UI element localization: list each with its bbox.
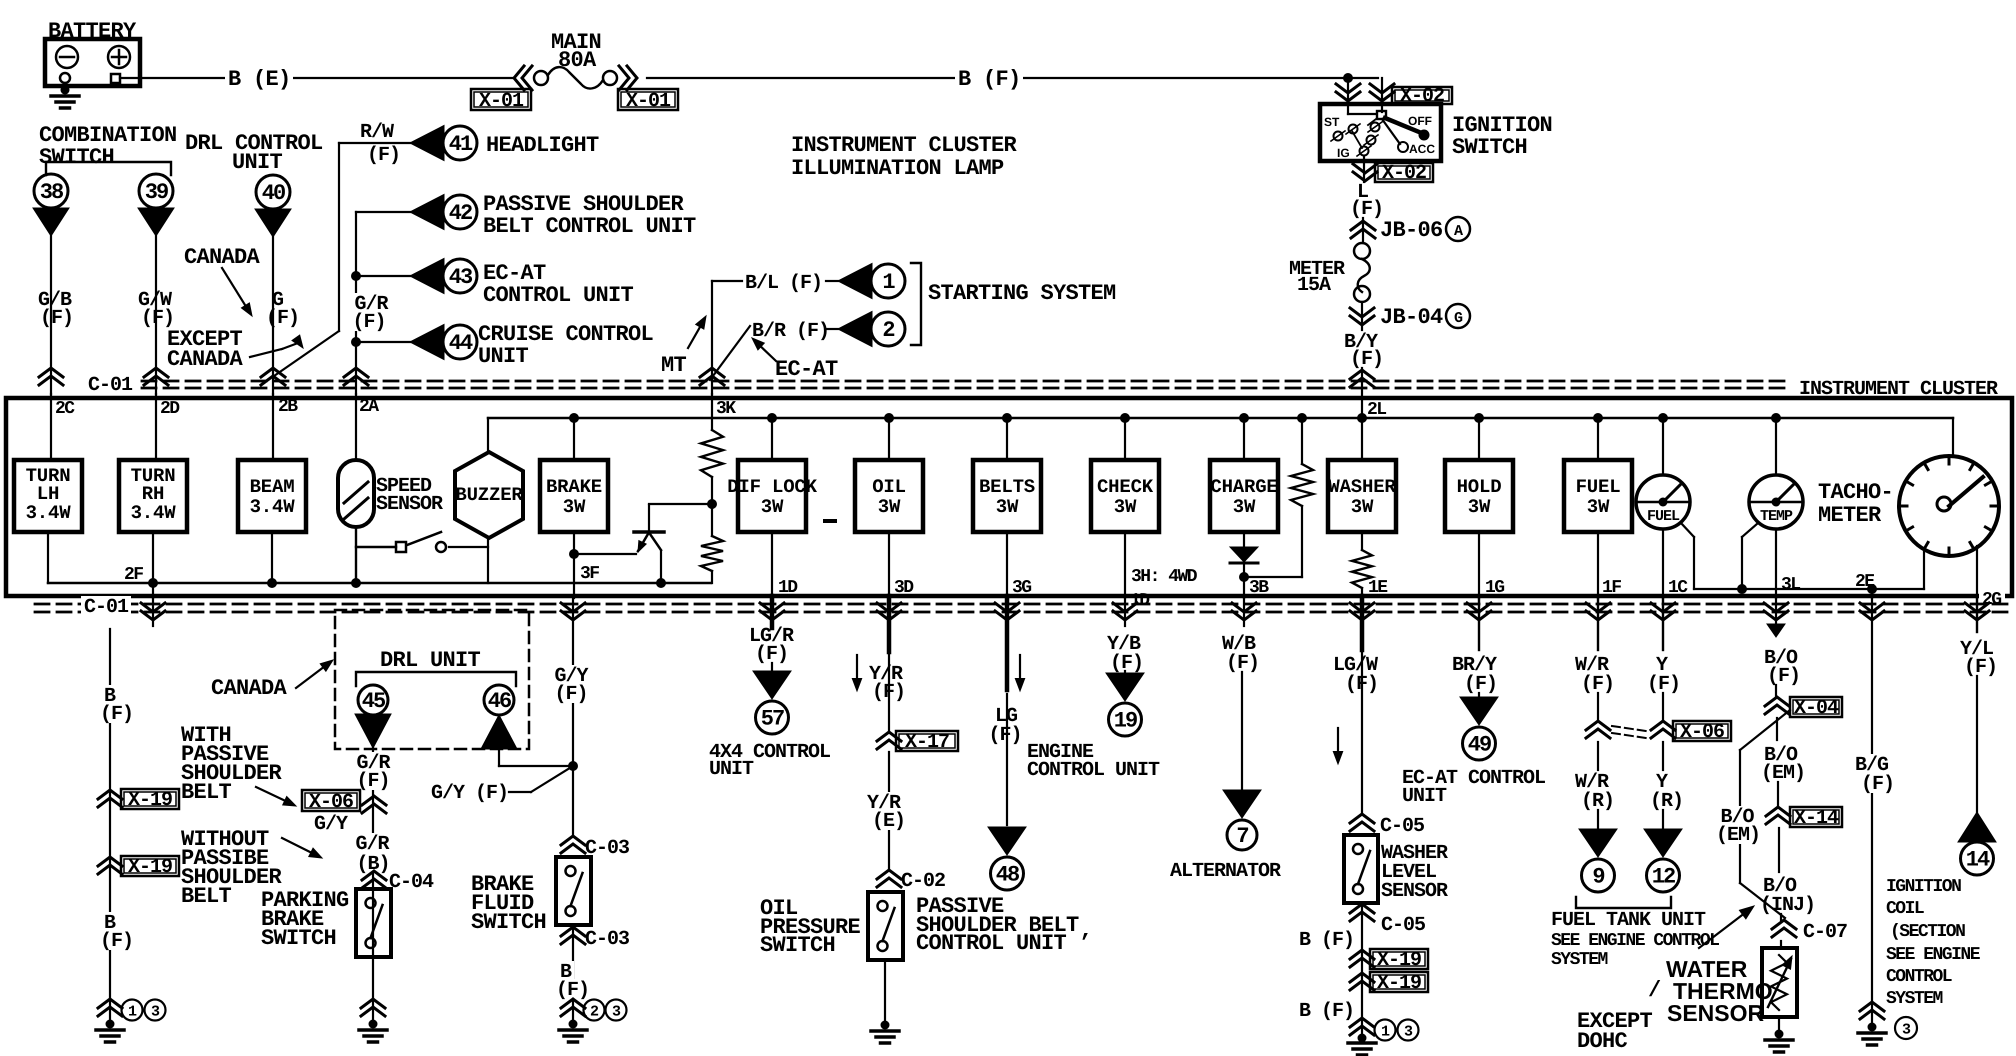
wire pin 2F through ground bus bbox=[152, 532, 154, 598]
svg-text:(F): (F) bbox=[367, 144, 400, 167]
junction G/Y to DRL 46 bbox=[568, 761, 578, 771]
pin 2F chevron bbox=[141, 603, 165, 620]
gauge fuel return wire bbox=[1681, 523, 1694, 537]
svg-text:/: / bbox=[1648, 978, 1661, 1003]
tachometer bbox=[1952, 418, 1954, 457]
resistor washer level bbox=[1361, 532, 1363, 550]
wire LG(F) passive belt unit bbox=[995, 603, 1019, 620]
svg-text:CANADA: CANADA bbox=[167, 347, 244, 372]
svg-text:BRAKE: BRAKE bbox=[546, 476, 602, 498]
junction block JB-04 (G) bbox=[1361, 302, 1363, 330]
diode charge lamp bbox=[1243, 532, 1245, 547]
ground water thermo bbox=[1778, 1017, 1780, 1030]
svg-text:(F): (F) bbox=[988, 724, 1021, 747]
water thermo sensor bbox=[1762, 948, 1797, 1017]
svg-text:B (F): B (F) bbox=[958, 67, 1021, 92]
svg-text:3W: 3W bbox=[1114, 496, 1137, 518]
brake fluid switch bbox=[556, 857, 591, 925]
pointer 14 ignition coil bbox=[1958, 812, 1996, 842]
svg-text:OIL: OIL bbox=[872, 476, 906, 498]
svg-text:(F): (F) bbox=[1861, 773, 1894, 796]
svg-text:ILLUMINATION LAMP: ILLUMINATION LAMP bbox=[791, 156, 1004, 181]
svg-text:1: 1 bbox=[1381, 1024, 1390, 1041]
direction arrow belts bbox=[1019, 655, 1021, 685]
connector X-06 chevron fuel bbox=[1586, 721, 1610, 738]
pointer 57 4x4 control unit bbox=[753, 671, 791, 699]
connector C-07 bbox=[1772, 920, 1796, 937]
speed sensor reed switch bbox=[356, 546, 396, 548]
svg-text:(F): (F) bbox=[1350, 198, 1383, 221]
ground brake fluid bbox=[561, 999, 585, 1016]
svg-text:(F): (F) bbox=[356, 770, 389, 793]
connector 46 DRL input bbox=[484, 685, 514, 715]
ground oil pressure bbox=[884, 960, 886, 1021]
svg-text:ALTERNATOR: ALTERNATOR bbox=[1170, 860, 1281, 883]
svg-text:2B: 2B bbox=[278, 397, 298, 417]
connector X-19 lower bbox=[98, 857, 122, 874]
junction B(F) at ignition bbox=[1343, 73, 1353, 83]
svg-text:COIL: COIL bbox=[1886, 899, 1924, 919]
svg-text:C-01: C-01 bbox=[88, 374, 133, 397]
svg-text:14: 14 bbox=[1966, 848, 1990, 873]
junction block JB-06 (A) bbox=[1351, 221, 1375, 238]
wire B(F) body ground left bbox=[109, 629, 111, 999]
svg-text:ACC: ACC bbox=[1409, 142, 1435, 156]
pointer 9 fuel tank unit bbox=[1579, 829, 1617, 857]
svg-text:X-19: X-19 bbox=[128, 789, 172, 812]
svg-text:X-06: X-06 bbox=[1680, 721, 1724, 744]
wire B(F) fuse to ignition switch bbox=[647, 77, 1378, 79]
connector 39 turn RH feed bbox=[139, 174, 173, 208]
wire LG/R(F) 4x4 control bbox=[760, 603, 784, 620]
ground B/G bbox=[1860, 1002, 1884, 1019]
svg-text:SENSOR: SENSOR bbox=[1667, 1000, 1765, 1026]
connector 45 DRL output bbox=[358, 685, 388, 715]
svg-text:CONTROL UNIT ’: CONTROL UNIT ’ bbox=[916, 931, 1091, 956]
svg-text:FUEL: FUEL bbox=[1576, 476, 1621, 498]
svg-text:OFF: OFF bbox=[1408, 114, 1432, 128]
svg-text:3.4W: 3.4W bbox=[26, 502, 72, 524]
svg-text:X-02: X-02 bbox=[1382, 162, 1426, 185]
cluster ground bus bbox=[48, 582, 711, 585]
svg-text:FUEL: FUEL bbox=[1647, 508, 1680, 525]
wire B/G(F) cluster ground bbox=[1860, 603, 1884, 620]
svg-text:45: 45 bbox=[362, 689, 386, 714]
svg-text:X-06: X-06 bbox=[309, 791, 353, 814]
svg-text:C-05: C-05 bbox=[1381, 914, 1425, 937]
pointer 43 EC-AT control unit bbox=[356, 275, 410, 277]
svg-text:SWITCH: SWITCH bbox=[760, 933, 835, 958]
connector C-04 bbox=[362, 871, 386, 888]
svg-text:(F): (F) bbox=[1110, 652, 1143, 675]
wire except-canada diagonal to pin 2B bbox=[274, 331, 339, 376]
svg-text:CANADA: CANADA bbox=[211, 676, 288, 701]
svg-text:3G: 3G bbox=[1012, 578, 1031, 598]
dash mark bbox=[825, 519, 835, 523]
svg-text:DRL UNIT: DRL UNIT bbox=[380, 648, 481, 673]
svg-text:49: 49 bbox=[1468, 733, 1491, 758]
svg-text:INSTRUMENT CLUSTER: INSTRUMENT CLUSTER bbox=[791, 133, 1018, 158]
svg-text:2D: 2D bbox=[160, 399, 180, 419]
wire B(E) battery to MAIN fuse bbox=[140, 77, 513, 79]
svg-text:IG: IG bbox=[1337, 146, 1350, 160]
ground left B(F) bbox=[98, 999, 122, 1016]
wire W/R fuel tank unit bbox=[1586, 603, 1610, 620]
svg-text:CANADA: CANADA bbox=[184, 245, 261, 270]
washer level sensor bbox=[1344, 835, 1378, 903]
ground battery bbox=[64, 83, 66, 90]
svg-text:JB-04: JB-04 bbox=[1380, 305, 1443, 330]
wire G/Y(F) brake fluid bbox=[572, 598, 574, 835]
direction arrow washer bbox=[1337, 728, 1339, 758]
wire pin 3F bbox=[573, 532, 575, 598]
junction 2E bbox=[1867, 584, 1877, 594]
svg-text:2A: 2A bbox=[359, 397, 379, 417]
svg-text:(F): (F) bbox=[352, 311, 385, 334]
svg-text:(F): (F) bbox=[1350, 348, 1383, 371]
wire LG/W washer level bbox=[1350, 603, 1374, 620]
pointer 42 passive shoulder belt control unit bbox=[356, 211, 410, 213]
connector C-01 upper dashed lines bbox=[142, 380, 1792, 383]
junction G/R to cruise bbox=[351, 337, 361, 347]
svg-text:(SECTION: (SECTION bbox=[1890, 922, 1965, 942]
svg-text:1D: 1D bbox=[1130, 591, 1150, 611]
svg-text:(F): (F) bbox=[40, 307, 73, 330]
ground parking brake bbox=[361, 999, 385, 1016]
svg-text:B/L (F): B/L (F) bbox=[745, 272, 822, 295]
svg-text:(F): (F) bbox=[1964, 656, 1997, 679]
svg-text:SWITCH: SWITCH bbox=[261, 926, 336, 951]
resistor cluster R3 bbox=[1297, 413, 1307, 423]
ground link 1 3 bbox=[122, 1000, 143, 1021]
svg-text:(EM): (EM) bbox=[1716, 824, 1760, 847]
svg-text:BELTS: BELTS bbox=[979, 476, 1035, 498]
svg-text:57: 57 bbox=[761, 707, 784, 732]
svg-text:BEAM: BEAM bbox=[250, 476, 295, 498]
connector X-02 bottom bbox=[1353, 164, 1377, 181]
ground link 3 bbox=[1895, 1017, 1917, 1039]
wire B/O water thermo bbox=[1764, 603, 1788, 620]
svg-text:TEMP: TEMP bbox=[1760, 508, 1793, 525]
lamp CHECK 3W bbox=[1120, 413, 1130, 423]
parking brake switch bbox=[356, 889, 391, 957]
wire G/B(F) pin 2C bbox=[50, 236, 52, 394]
svg-text:EC-AT: EC-AT bbox=[775, 357, 838, 382]
svg-text:UNIT: UNIT bbox=[709, 758, 754, 781]
svg-text:C-01: C-01 bbox=[84, 596, 129, 619]
junction G/R to EC-AT bbox=[351, 271, 361, 281]
wire Y fuel gauge sender bbox=[1651, 603, 1675, 620]
connector X-19 washer lower bbox=[1350, 973, 1374, 990]
svg-text:1F: 1F bbox=[1602, 578, 1621, 598]
svg-text:3D: 3D bbox=[894, 578, 914, 598]
wire BR/Y(F) EC-AT control bbox=[1467, 603, 1491, 620]
gauge FUEL bbox=[1658, 413, 1668, 423]
lamp BELTS 3W bbox=[1002, 413, 1012, 423]
svg-text:2C: 2C bbox=[55, 399, 75, 419]
svg-text:X-01: X-01 bbox=[626, 90, 671, 113]
connector C-01 upper label bbox=[85, 374, 135, 394]
svg-text:19: 19 bbox=[1114, 709, 1137, 734]
svg-text:(F): (F) bbox=[100, 703, 133, 726]
lamp OIL 3W bbox=[884, 413, 894, 423]
svg-text:1D: 1D bbox=[778, 578, 798, 598]
ignition switch leads through X-02 bbox=[1347, 78, 1349, 114]
lamp TURN LH 3.4W bbox=[50, 394, 52, 460]
svg-text:CHARGE: CHARGE bbox=[1210, 476, 1277, 498]
svg-text:12: 12 bbox=[1652, 865, 1675, 890]
svg-text:BELT CONTROL UNIT: BELT CONTROL UNIT bbox=[483, 214, 696, 239]
svg-text:3W: 3W bbox=[761, 496, 784, 518]
lamp DIF LOCK 3W bbox=[767, 413, 777, 423]
svg-text:3W: 3W bbox=[1587, 496, 1610, 518]
svg-text:3W: 3W bbox=[563, 496, 586, 518]
connector X-17 bbox=[877, 732, 901, 749]
wire pin 2E bbox=[1871, 589, 1873, 598]
wire pin 2G bbox=[1976, 546, 1978, 598]
svg-text:3W: 3W bbox=[1351, 496, 1374, 518]
svg-text:46: 46 bbox=[488, 689, 511, 714]
svg-text:SYSTEM: SYSTEM bbox=[1886, 989, 1943, 1009]
lamp BRAKE 3W bbox=[569, 413, 579, 423]
svg-text:X-19: X-19 bbox=[1377, 972, 1421, 995]
pointer 1 starting system bbox=[838, 264, 872, 299]
connector 38 turn LH feed bbox=[34, 174, 68, 208]
connector C-05 lower bbox=[1350, 904, 1374, 921]
svg-text:SWITCH: SWITCH bbox=[39, 145, 114, 170]
connector C-03 upper bbox=[561, 836, 585, 853]
svg-text:UNIT: UNIT bbox=[1402, 785, 1447, 808]
wire B/R(F) EC-AT variant bbox=[710, 326, 750, 380]
svg-text:CHECK: CHECK bbox=[1097, 476, 1154, 498]
connector C-02 bbox=[877, 870, 901, 887]
svg-text:UNIT: UNIT bbox=[478, 344, 529, 369]
wire G/R parking brake bbox=[372, 748, 374, 999]
svg-text:44: 44 bbox=[449, 331, 473, 356]
svg-text:3L: 3L bbox=[1781, 575, 1800, 595]
svg-text:3H: 4WD: 3H: 4WD bbox=[1131, 567, 1198, 587]
wire 46 feed from G/Y bbox=[498, 749, 500, 766]
svg-text:METER: METER bbox=[1818, 503, 1882, 528]
svg-text:3: 3 bbox=[151, 1004, 160, 1021]
wire pin 1C bbox=[1662, 529, 1664, 598]
gauge temp return wire bbox=[1742, 523, 1758, 537]
wire G/W(F) pin 2D bbox=[155, 236, 157, 394]
pointer 12 fuel gauge sender bbox=[1644, 829, 1682, 857]
svg-text:JB-06: JB-06 bbox=[1380, 218, 1443, 243]
svg-text:X-17: X-17 bbox=[905, 731, 949, 754]
connector C-01 lower label bbox=[81, 596, 131, 616]
svg-text:DOHC: DOHC bbox=[1577, 1029, 1628, 1054]
svg-text:42: 42 bbox=[449, 201, 472, 226]
svg-text:3.4W: 3.4W bbox=[131, 502, 177, 524]
svg-text:(EM): (EM) bbox=[1761, 762, 1805, 785]
svg-text:1: 1 bbox=[882, 270, 895, 295]
connector X-19 upper bbox=[98, 790, 122, 807]
svg-text:X-19: X-19 bbox=[1377, 949, 1421, 972]
connector C-05 upper bbox=[1350, 814, 1374, 831]
svg-text:SEE ENGINE CONTROL: SEE ENGINE CONTROL bbox=[1551, 931, 1719, 951]
connector X-04 bbox=[1765, 697, 1789, 714]
ground link 2 3 bbox=[584, 1000, 605, 1021]
svg-text:1: 1 bbox=[128, 1004, 137, 1021]
svg-text:B (F): B (F) bbox=[1299, 929, 1354, 952]
svg-text:2F: 2F bbox=[124, 565, 143, 585]
svg-text:2: 2 bbox=[882, 318, 894, 343]
lamp TURN RH 3.4W bbox=[155, 394, 157, 460]
svg-text:G: G bbox=[1454, 310, 1463, 327]
pointer 41 headlight bbox=[410, 126, 444, 161]
ignition switch bbox=[1320, 104, 1441, 161]
svg-text:UNIT: UNIT bbox=[232, 150, 283, 175]
connector X-01 left bbox=[471, 89, 531, 110]
svg-text:CONTROL UNIT: CONTROL UNIT bbox=[1027, 759, 1160, 782]
connector X-01 right bbox=[618, 89, 678, 110]
pointer 48 passive shoulder belt control unit bbox=[988, 827, 1026, 855]
oil pressure switch bbox=[868, 892, 903, 960]
wire G/R(F) pin 2A bbox=[355, 212, 357, 394]
svg-text:3: 3 bbox=[1902, 1022, 1911, 1039]
svg-text:C-03: C-03 bbox=[585, 928, 629, 951]
svg-text:1G: 1G bbox=[1485, 578, 1504, 598]
connector C-01 lower dashed lines bbox=[35, 603, 2012, 606]
svg-text:9: 9 bbox=[1592, 865, 1604, 890]
svg-text:BELT: BELT bbox=[181, 884, 232, 909]
svg-text:(F): (F) bbox=[1464, 673, 1497, 696]
svg-text:2E: 2E bbox=[1855, 572, 1875, 592]
svg-text:CONTROL UNIT: CONTROL UNIT bbox=[483, 283, 634, 308]
svg-text:43: 43 bbox=[449, 265, 473, 290]
svg-text:3W: 3W bbox=[1468, 496, 1491, 518]
svg-text:1C: 1C bbox=[1668, 578, 1688, 598]
svg-text:1E: 1E bbox=[1368, 578, 1388, 598]
svg-text:C-02: C-02 bbox=[901, 870, 945, 893]
wire pin 3L bbox=[1775, 529, 1777, 598]
svg-text:(R): (R) bbox=[1650, 790, 1683, 813]
lamp FUEL 3W bbox=[1593, 413, 1603, 423]
connector X-02 top bbox=[1392, 87, 1452, 104]
svg-text:(F): (F) bbox=[100, 930, 133, 953]
svg-text:38: 38 bbox=[40, 180, 64, 205]
resistor cluster R2 bbox=[711, 504, 713, 536]
svg-text:48: 48 bbox=[996, 863, 1020, 888]
wire B/L(F) starting system pin 3K bbox=[712, 280, 742, 282]
wire G(F) pin 2B bbox=[272, 237, 274, 394]
svg-text:C-07: C-07 bbox=[1803, 921, 1847, 944]
svg-text:40: 40 bbox=[262, 181, 285, 206]
svg-text:3: 3 bbox=[612, 1004, 621, 1021]
svg-text:TACHO-: TACHO- bbox=[1818, 480, 1893, 505]
svg-text:MT: MT bbox=[661, 353, 687, 378]
fuel tank unit bracket bbox=[1576, 897, 1671, 908]
DRL unit dashed box bbox=[335, 610, 529, 749]
pointer 49 EC-AT control unit bbox=[1460, 697, 1498, 725]
svg-text:STARTING SYSTEM: STARTING SYSTEM bbox=[928, 281, 1116, 306]
connector X-06 parking bbox=[362, 796, 386, 813]
svg-text:HOLD: HOLD bbox=[1457, 476, 1502, 498]
water thermo leader bbox=[1699, 909, 1750, 948]
svg-text:3: 3 bbox=[1404, 1024, 1413, 1041]
lamp HOLD 3W bbox=[1474, 413, 1484, 423]
svg-text:B/R (F): B/R (F) bbox=[752, 320, 829, 343]
connector X-19 washer upper bbox=[1350, 950, 1374, 967]
svg-text:B (F): B (F) bbox=[1299, 1000, 1354, 1023]
instrument cluster box bbox=[6, 398, 2012, 596]
svg-text:B (E): B (E) bbox=[228, 67, 291, 92]
svg-text:(F): (F) bbox=[554, 683, 587, 706]
connector X-14 bbox=[1766, 807, 1790, 824]
lamp CHARGE 3W bbox=[1239, 413, 1249, 423]
svg-text:3.4W: 3.4W bbox=[250, 496, 296, 518]
wire W/B(F) alternator bbox=[1232, 603, 1256, 620]
svg-text:3K: 3K bbox=[716, 399, 736, 419]
wire B/O(EM) bypass bbox=[1740, 710, 1790, 750]
resistor cluster R1 bbox=[711, 394, 713, 430]
svg-text:C-04: C-04 bbox=[389, 871, 434, 894]
battery B-01 bbox=[45, 39, 140, 86]
speed sensor bbox=[355, 394, 357, 460]
gauge TEMP bbox=[1771, 413, 1781, 423]
direction arrow oil bbox=[856, 655, 858, 685]
cluster lamp bus bbox=[488, 417, 1953, 420]
svg-text:WASHER: WASHER bbox=[1328, 476, 1396, 498]
starting system bracket bbox=[911, 263, 921, 345]
wire Y/B(F) engine control bbox=[1113, 603, 1137, 620]
wire Y/L(F) tachometer signal bbox=[1965, 603, 1989, 620]
wire R/W(F) to headlight bbox=[339, 142, 410, 144]
svg-text:ST: ST bbox=[1324, 115, 1340, 129]
svg-text:3W: 3W bbox=[1233, 496, 1256, 518]
svg-text:X-01: X-01 bbox=[479, 90, 524, 113]
wire Y/R oil pressure bbox=[877, 603, 901, 620]
svg-text:SENSOR: SENSOR bbox=[376, 493, 443, 516]
svg-text:DIF LOCK: DIF LOCK bbox=[727, 476, 817, 498]
wire label G/R (B) bbox=[352, 833, 391, 853]
connector X-06 fuel gauge bbox=[1651, 721, 1675, 738]
svg-text:X-04: X-04 bbox=[1794, 697, 1839, 720]
svg-text:G/Y (F): G/Y (F) bbox=[431, 782, 508, 805]
svg-text:(E): (E) bbox=[872, 810, 905, 833]
ground link washer 1 3 bbox=[1375, 1020, 1396, 1041]
junction 3K resistor bbox=[707, 499, 717, 509]
svg-text:41: 41 bbox=[449, 132, 473, 157]
lamp BEAM 3.4W bbox=[272, 394, 274, 460]
svg-text:CONTROL: CONTROL bbox=[1886, 967, 1952, 987]
svg-text:X-19: X-19 bbox=[128, 856, 172, 879]
svg-text:IGNITION: IGNITION bbox=[1886, 877, 1961, 897]
junction 3B resistor bbox=[1239, 572, 1249, 582]
svg-text:SYSTEM: SYSTEM bbox=[1551, 950, 1608, 970]
svg-text:SENSOR: SENSOR bbox=[1381, 880, 1448, 903]
connector 40 DRL feed bbox=[256, 175, 290, 209]
svg-text:3B: 3B bbox=[1249, 578, 1269, 598]
svg-text:3F: 3F bbox=[580, 564, 599, 584]
svg-text:FUEL TANK UNIT: FUEL TANK UNIT bbox=[1551, 909, 1706, 932]
svg-text:X-14: X-14 bbox=[1794, 807, 1839, 830]
pointer 2 starting system bbox=[838, 312, 872, 347]
svg-text:7: 7 bbox=[1236, 824, 1248, 849]
svg-text:BELT: BELT bbox=[181, 780, 232, 805]
pointer 19 engine control unit bbox=[1106, 673, 1144, 701]
svg-text:G/Y: G/Y bbox=[314, 813, 348, 836]
svg-text:15A: 15A bbox=[1297, 274, 1331, 297]
ground washer level bbox=[1350, 1018, 1374, 1035]
svg-text:39: 39 bbox=[145, 180, 168, 205]
svg-text:A: A bbox=[1454, 223, 1463, 240]
DRL unit bracket bbox=[356, 672, 516, 686]
combination switch bracket bbox=[46, 162, 171, 175]
svg-text:HEADLIGHT: HEADLIGHT bbox=[486, 133, 599, 158]
